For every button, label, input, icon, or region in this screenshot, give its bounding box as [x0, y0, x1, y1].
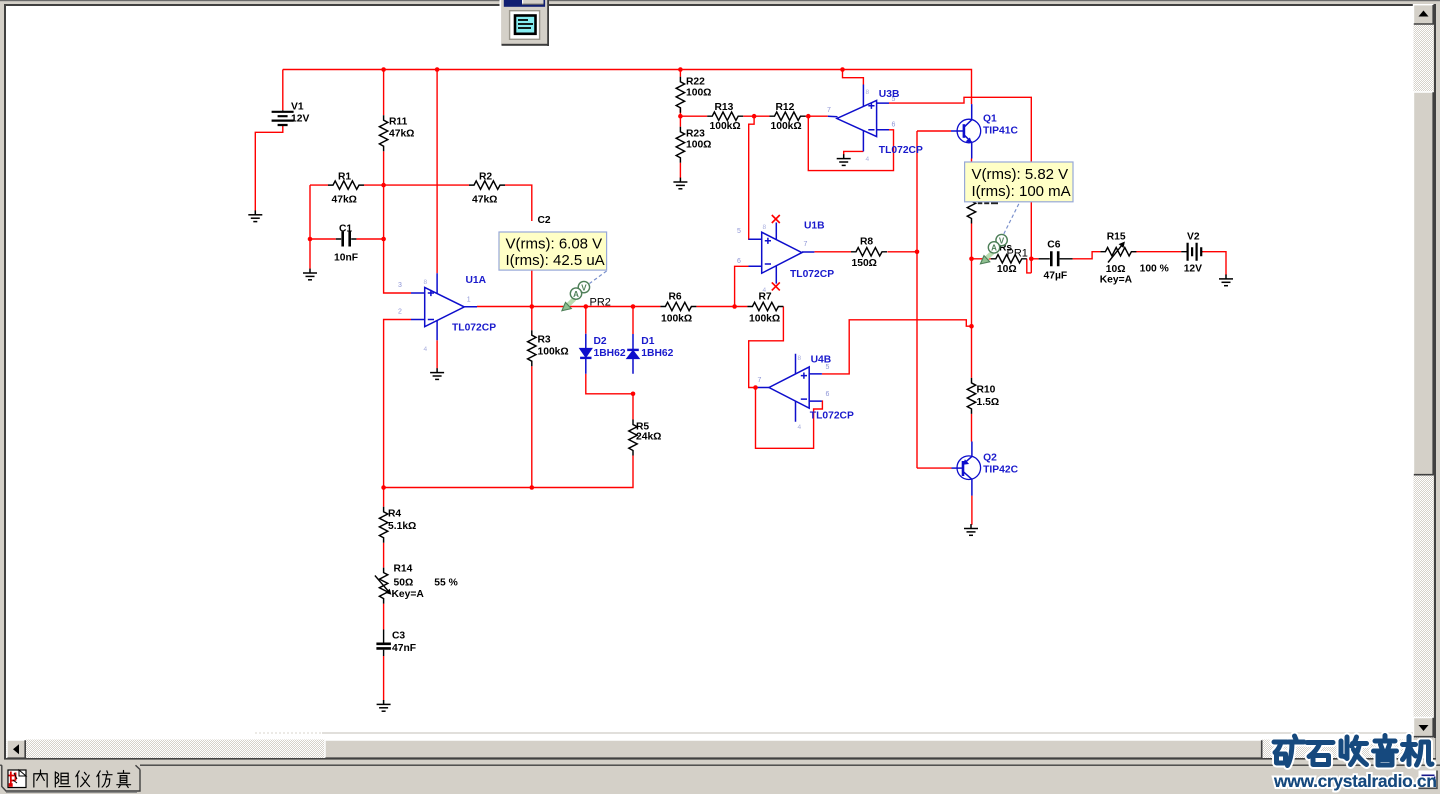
svg-text:100kΩ: 100kΩ [710, 121, 741, 132]
svg-text:R4: R4 [388, 509, 401, 520]
svg-text:Q1: Q1 [983, 114, 997, 125]
svg-text:R13: R13 [715, 102, 734, 113]
svg-text:TL072CP: TL072CP [810, 411, 854, 422]
svg-text:Q2: Q2 [983, 453, 997, 464]
svg-text:C3: C3 [392, 631, 405, 642]
svg-text:24kΩ: 24kΩ [636, 432, 661, 443]
svg-text:8: 8 [424, 279, 428, 286]
svg-text:U4B: U4B [811, 355, 832, 366]
svg-text:10Ω: 10Ω [1106, 264, 1126, 275]
svg-text:R15: R15 [1107, 232, 1126, 243]
svg-text:I(rms): 100 mA: I(rms): 100 mA [972, 183, 1071, 200]
svg-text:U1A: U1A [466, 275, 487, 286]
svg-text:100kΩ: 100kΩ [749, 314, 780, 325]
svg-text:12V: 12V [1184, 264, 1202, 275]
svg-text:C2: C2 [538, 215, 551, 226]
svg-text:R6: R6 [669, 292, 682, 303]
svg-text:100kΩ: 100kΩ [538, 347, 569, 358]
svg-text:1: 1 [467, 297, 471, 304]
svg-text:R1: R1 [338, 172, 351, 183]
svg-text:10Ω: 10Ω [997, 264, 1017, 275]
svg-text:www.crystalradio.cn: www.crystalradio.cn [1273, 771, 1437, 791]
svg-text:R22: R22 [686, 77, 705, 88]
svg-text:5.1kΩ: 5.1kΩ [388, 521, 416, 532]
svg-text:150Ω: 150Ω [852, 258, 877, 269]
svg-text:V: V [581, 283, 587, 292]
svg-text:TL072CP: TL072CP [790, 269, 834, 280]
svg-text:TL072CP: TL072CP [452, 323, 496, 334]
svg-text:I(rms): 42.5 uA: I(rms): 42.5 uA [506, 252, 605, 269]
svg-text:8: 8 [866, 89, 870, 96]
svg-text:47kΩ: 47kΩ [332, 195, 357, 206]
svg-text:Key=A: Key=A [392, 589, 425, 600]
svg-text:5: 5 [737, 228, 741, 235]
svg-text:4: 4 [798, 424, 802, 431]
svg-text:10nF: 10nF [334, 253, 358, 264]
svg-text:4: 4 [424, 346, 428, 353]
svg-text:8: 8 [798, 355, 802, 362]
svg-text:47kΩ: 47kΩ [472, 195, 497, 206]
svg-text:100Ω: 100Ω [686, 88, 711, 99]
svg-text:12V: 12V [291, 114, 309, 125]
svg-text:50Ω: 50Ω [394, 578, 414, 589]
svg-text:1.5Ω: 1.5Ω [977, 397, 1000, 408]
svg-text:6: 6 [892, 122, 896, 129]
svg-text:R3: R3 [538, 335, 551, 346]
svg-text:3: 3 [398, 282, 402, 289]
svg-text:55 %: 55 % [434, 578, 457, 589]
svg-text:PR2: PR2 [590, 297, 611, 309]
svg-text:A: A [573, 290, 579, 299]
svg-text:R10: R10 [977, 385, 996, 396]
svg-text:D2: D2 [594, 336, 607, 347]
svg-text:V1: V1 [291, 102, 304, 113]
svg-text:8: 8 [763, 224, 767, 231]
svg-text:R14: R14 [394, 564, 413, 575]
svg-text:1BH62: 1BH62 [641, 348, 673, 359]
svg-text:PR1: PR1 [1007, 248, 1028, 260]
svg-text:R11: R11 [389, 117, 408, 128]
svg-text:V: V [999, 236, 1005, 245]
svg-text:V(rms): 6.08 V: V(rms): 6.08 V [506, 236, 603, 253]
svg-text:V(rms): 5.82 V: V(rms): 5.82 V [972, 166, 1069, 183]
svg-text:100 %: 100 % [1140, 264, 1169, 275]
svg-text:R12: R12 [776, 102, 795, 113]
svg-text:7: 7 [827, 107, 831, 114]
svg-text:A: A [991, 244, 997, 253]
svg-text:Key=A: Key=A [1100, 275, 1133, 286]
svg-text:V2: V2 [1187, 232, 1200, 243]
svg-text:C6: C6 [1047, 240, 1060, 251]
svg-text:U3B: U3B [879, 89, 900, 100]
svg-text:4: 4 [866, 156, 870, 163]
svg-text:47µF: 47µF [1044, 271, 1068, 282]
svg-text:6: 6 [826, 391, 830, 398]
svg-text:100kΩ: 100kΩ [661, 314, 692, 325]
svg-text:47nF: 47nF [392, 643, 416, 654]
svg-text:U1B: U1B [804, 221, 825, 232]
svg-text:7: 7 [758, 377, 762, 384]
svg-text:TIP41C: TIP41C [983, 126, 1018, 137]
svg-text:TL072CP: TL072CP [879, 145, 923, 156]
svg-text:7: 7 [804, 241, 808, 248]
svg-text:6: 6 [737, 258, 741, 265]
svg-text:2: 2 [398, 309, 402, 316]
svg-text:R8: R8 [860, 237, 873, 248]
svg-text:C1: C1 [339, 224, 352, 235]
svg-text:R7: R7 [759, 292, 772, 303]
svg-text:D1: D1 [641, 336, 654, 347]
svg-text:R23: R23 [686, 129, 705, 140]
svg-text:R2: R2 [479, 172, 492, 183]
svg-text:TIP42C: TIP42C [983, 465, 1018, 476]
svg-text:100kΩ: 100kΩ [771, 121, 802, 132]
svg-text:1BH62: 1BH62 [594, 348, 626, 359]
svg-text:47kΩ: 47kΩ [389, 129, 414, 140]
svg-text:100Ω: 100Ω [686, 140, 711, 151]
